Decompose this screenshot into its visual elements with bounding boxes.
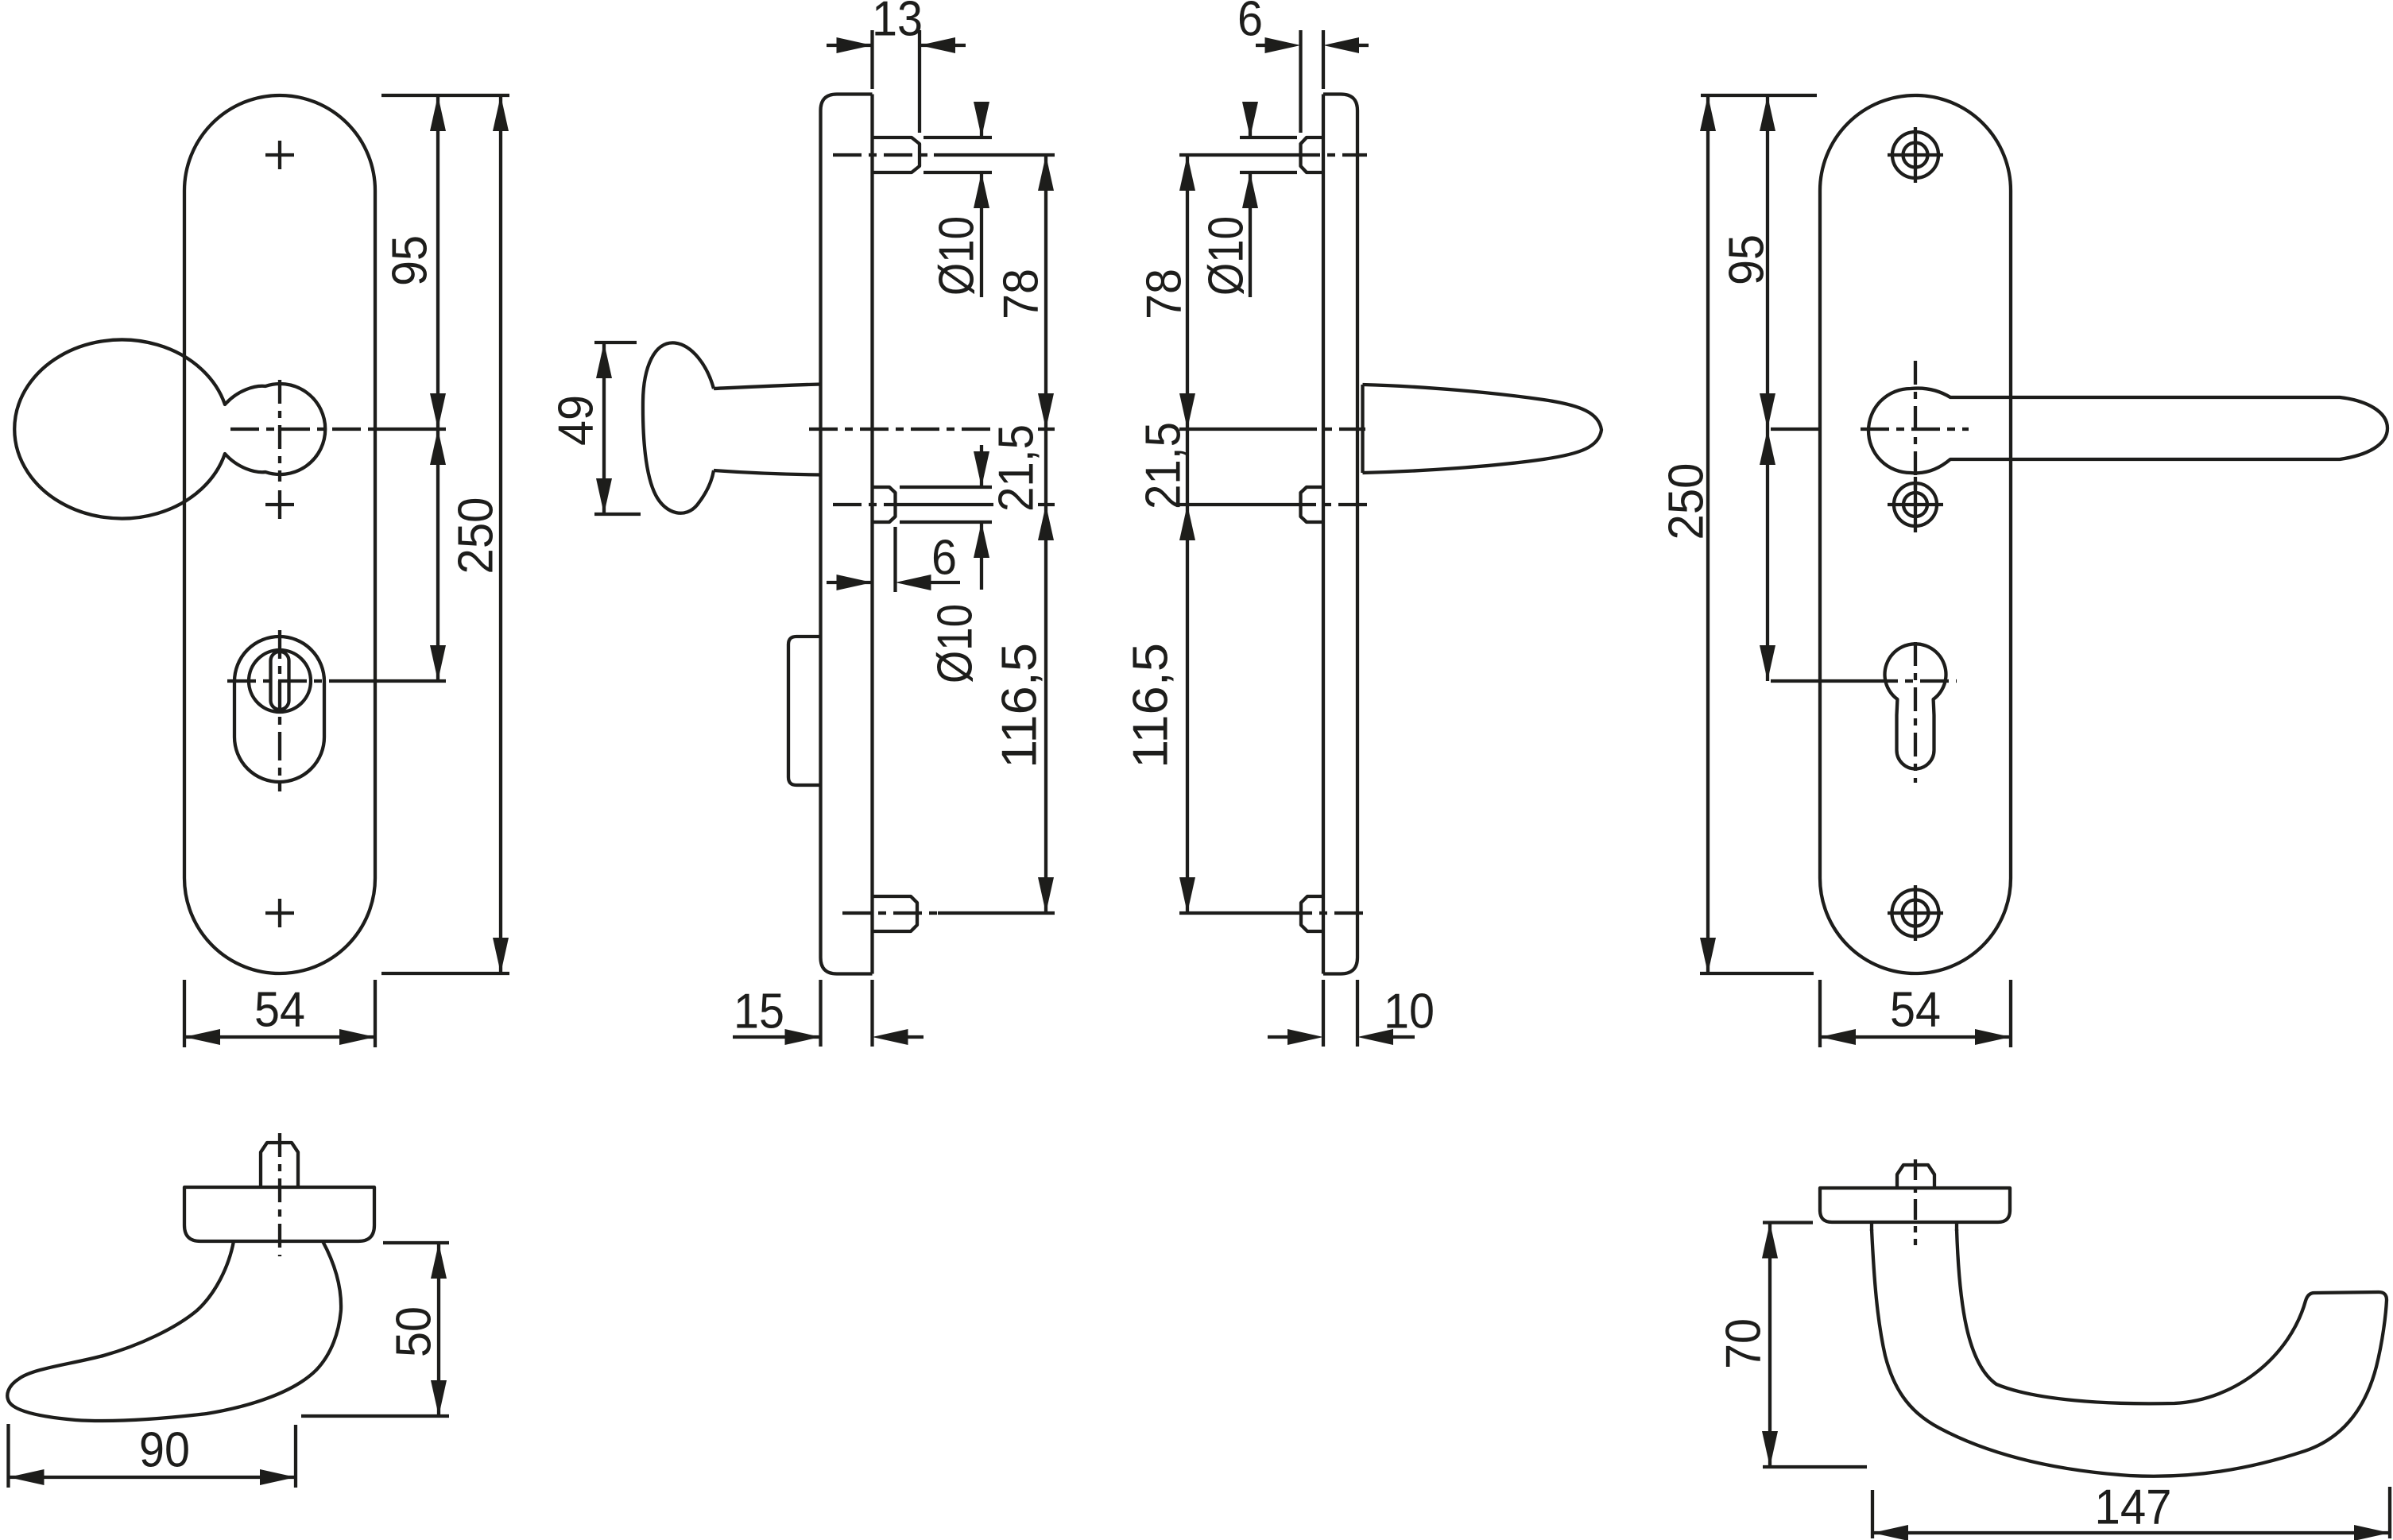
knob centre extension line bbox=[375, 428, 446, 431]
top fixing screw M6x13 (view2) bbox=[873, 137, 920, 172]
svg-text:54: 54 bbox=[254, 982, 305, 1037]
extension line 15 left (view2) bbox=[819, 980, 822, 1047]
dimension Ø10 middle screw (view2) bbox=[980, 445, 983, 487]
extension line 6 at screw tip (view3) bbox=[1299, 30, 1302, 133]
lever base edge (view3) bbox=[1361, 385, 1364, 473]
dimension line 90 (view5) bbox=[9, 1476, 296, 1479]
screw position mark middle (+) bbox=[265, 503, 294, 506]
dimension Ø10 top screw (view3) bbox=[1249, 102, 1252, 137]
cylinder housing hump (view2) bbox=[788, 637, 821, 785]
dimension line 54 (view4) bbox=[1820, 1035, 2011, 1039]
extension line plate top (view4) bbox=[1701, 94, 1817, 97]
extension line 70 top (view6) bbox=[1763, 1221, 1813, 1224]
extension line 10 left (view3) bbox=[1322, 980, 1325, 1047]
svg-text:70: 70 bbox=[1716, 1318, 1771, 1369]
extension line plate bottom (view1) bbox=[381, 972, 509, 975]
screw head top (view4) bbox=[1892, 132, 1938, 178]
svg-text:49: 49 bbox=[548, 395, 603, 446]
extension lines Ø10 top screw (view3) bbox=[1240, 136, 1297, 139]
screw position mark top (+) bbox=[265, 153, 294, 157]
lever centre line (view3) bbox=[1288, 428, 1365, 431]
svg-text:10: 10 bbox=[1384, 984, 1435, 1039]
dimension line 78 (view3) bbox=[1186, 155, 1189, 429]
knob (front view egg shape with neck) bbox=[14, 340, 325, 519]
svg-text:21,5: 21,5 bbox=[989, 424, 1044, 512]
cylinder hole oval (security rosette opening) bbox=[234, 637, 324, 782]
extension line plate top (view1) bbox=[381, 94, 509, 97]
lever centre extension line (view3) bbox=[1196, 428, 1288, 431]
svg-text:21,5: 21,5 bbox=[1136, 422, 1191, 509]
plate door face line (view3) bbox=[1322, 95, 1325, 974]
extension line 15 right (view2) bbox=[870, 980, 873, 1047]
plate door face line (view2) bbox=[870, 95, 873, 974]
knob grip profile (view5) bbox=[7, 1241, 341, 1421]
knob side view neck bottom line bbox=[714, 470, 821, 475]
dimension line lever-to-cylinder (view4) bbox=[1766, 429, 1769, 681]
lever grip profile (view6) bbox=[1872, 1229, 2387, 1476]
extension line 147 left (view6) bbox=[1871, 1490, 1874, 1538]
middle screw centre line (view3) bbox=[1196, 503, 1287, 506]
dimension line 147 (view6) bbox=[1872, 1531, 2390, 1534]
chain tick at top screw (view3) bbox=[1179, 153, 1196, 157]
dimension line 21,5 (view2) bbox=[1044, 429, 1047, 505]
extension line 54 left (view4) bbox=[1818, 980, 1822, 1047]
dimension line 13 (view2) bbox=[827, 44, 873, 47]
extension line 90 left (view5) bbox=[6, 1424, 10, 1488]
chain tick at lever centre (view3) bbox=[1179, 428, 1196, 431]
middle fixing screw M6x6 (view2) bbox=[873, 487, 896, 522]
euro profile cylinder hole (view4) bbox=[1885, 644, 1946, 768]
dimension line 250 (view4) bbox=[1706, 95, 1710, 973]
svg-text:15: 15 bbox=[734, 984, 784, 1039]
dimension line 54 (view1) bbox=[184, 1035, 375, 1039]
lever spindle centre line (view6) bbox=[1914, 1159, 1917, 1245]
svg-text:6: 6 bbox=[1237, 0, 1263, 46]
dimension line 21,5 (view3) bbox=[1186, 429, 1189, 505]
lever horizontal centre line (view4) bbox=[1861, 428, 1969, 431]
cylinder horizontal centre line bbox=[227, 679, 342, 683]
extension line 54 right (view1) bbox=[374, 980, 377, 1047]
svg-text:13: 13 bbox=[872, 0, 923, 46]
svg-text:50: 50 bbox=[386, 1306, 441, 1357]
bottom screw centre line (view3) bbox=[1196, 911, 1284, 915]
dimension line 6 (view3) bbox=[1256, 44, 1265, 47]
svg-text:95: 95 bbox=[382, 235, 437, 286]
knob vertical centre line bbox=[278, 380, 281, 482]
dimension line 116,5 (view3) bbox=[1186, 505, 1189, 913]
knob centre line (view2) bbox=[809, 428, 997, 431]
cylinder centre extension line bbox=[342, 679, 446, 683]
svg-text:95: 95 bbox=[1719, 234, 1774, 285]
lever rose flange (view6) bbox=[1820, 1188, 2010, 1222]
top fixing screw M6x6 (view3) bbox=[1301, 137, 1324, 172]
extension line 50 top (view5) bbox=[383, 1241, 449, 1244]
dimension line 6 (view2) bbox=[827, 581, 873, 584]
plate side profile (view2, 15 thick) bbox=[821, 95, 873, 974]
extension lines Ø10 top screw (view2) bbox=[924, 136, 992, 139]
inside backplate outline (front view, 54x250) bbox=[1820, 95, 2011, 973]
svg-text:147: 147 bbox=[2095, 1480, 2172, 1534]
svg-text:Ø10: Ø10 bbox=[927, 604, 982, 683]
lever handle front view (view4) bbox=[1868, 389, 2387, 474]
lever handle side view (view3) bbox=[1363, 385, 1602, 473]
svg-text:78: 78 bbox=[993, 269, 1048, 319]
chain tick at middle screw (view2) bbox=[1038, 503, 1055, 506]
plate side profile (view3, 10 thick) bbox=[1323, 95, 1357, 974]
svg-text:250: 250 bbox=[1659, 463, 1713, 540]
knob spindle (view5) bbox=[261, 1143, 298, 1187]
knob side view cap bbox=[643, 342, 714, 513]
extension line cylinder centre (view4) bbox=[1771, 679, 1869, 683]
top screw centre line (view3) bbox=[1196, 153, 1291, 157]
svg-text:116,5: 116,5 bbox=[1123, 643, 1178, 768]
chain tick at bottom screw (view3) bbox=[1179, 911, 1196, 915]
svg-text:116,5: 116,5 bbox=[992, 643, 1047, 768]
svg-text:250: 250 bbox=[448, 497, 503, 575]
dimension line 250 (view1) bbox=[499, 95, 502, 973]
extension line 6 at plate face (view3) bbox=[1322, 30, 1325, 89]
lever spindle (view6) bbox=[1897, 1165, 1934, 1188]
dimension line 49 (view2) bbox=[602, 342, 606, 514]
cylinder hole vertical centre line (view4) bbox=[1914, 642, 1917, 783]
extension line 70 bottom (view6) bbox=[1763, 1465, 1867, 1468]
middle fixing screw M6x6 (view3) bbox=[1301, 487, 1324, 522]
extension line 50 bottom (view5) bbox=[301, 1414, 449, 1418]
screw head bottom (view4) bbox=[1892, 890, 1939, 937]
lever collar right edge (view6) bbox=[1955, 1222, 1958, 1231]
dimension line 116,5 (view2) bbox=[1044, 505, 1047, 913]
lever collar left edge (view6) bbox=[1870, 1222, 1873, 1231]
chain tick at top screw (view2) bbox=[1038, 153, 1055, 157]
extension line 6 middle screw (view2) bbox=[893, 527, 896, 592]
dimension line 95 (view1) bbox=[436, 95, 439, 429]
extension line 54 right (view4) bbox=[2009, 980, 2012, 1047]
dimension line 15 (view2) bbox=[733, 1035, 821, 1039]
extension line lever centre (view4) bbox=[1771, 428, 1821, 431]
extension line 13 at plate face (view2) bbox=[870, 30, 873, 89]
extension line 13 at screw tip (view2) bbox=[918, 30, 921, 133]
svg-text:78: 78 bbox=[1136, 269, 1191, 319]
dimension line 70 (view6) bbox=[1768, 1223, 1772, 1468]
dimension line 78 (view2) bbox=[1044, 155, 1047, 429]
middle screw centre line (view2) bbox=[833, 503, 906, 506]
screw position mark bottom (+) bbox=[265, 911, 294, 915]
chain tick at knob centre (view2) bbox=[1038, 428, 1055, 431]
screw head middle (view4) bbox=[1894, 483, 1937, 526]
top screw centre line (view2) bbox=[833, 153, 934, 157]
bottom fixing screw M6x6 (view3) bbox=[1301, 896, 1323, 931]
extension line 49 bottom (knob cap) bbox=[594, 513, 641, 516]
extension line 147 right (view6) bbox=[2388, 1487, 2391, 1538]
cylinder hole horizontal centre line (view4) bbox=[1869, 679, 1957, 683]
outside backplate outline (front view, 54x250) bbox=[184, 95, 375, 973]
extension lines Ø10 middle screw (view2) bbox=[900, 486, 992, 489]
extension line 49 top (knob cap) bbox=[594, 341, 637, 344]
dimension line knob-to-cylinder (view1) bbox=[436, 429, 439, 681]
lever vertical centre line (view4) bbox=[1914, 361, 1917, 493]
svg-text:54: 54 bbox=[1890, 982, 1941, 1037]
cylinder body circle bbox=[249, 650, 311, 712]
chain tick at middle screw (view3) bbox=[1179, 503, 1196, 506]
dimension Ø10 top screw (view2) bbox=[980, 102, 983, 137]
bottom screw centre line (view2) bbox=[842, 911, 938, 915]
dimension line 10 (view3) bbox=[1268, 1035, 1288, 1039]
extension line 10 right (view3) bbox=[1356, 980, 1359, 1047]
knob spindle centre line (view5) bbox=[278, 1133, 281, 1256]
dimension line 50 (view5) bbox=[437, 1243, 440, 1416]
svg-text:90: 90 bbox=[139, 1422, 190, 1477]
knob rose flange (view5) bbox=[184, 1187, 374, 1241]
svg-text:Ø10: Ø10 bbox=[1198, 216, 1253, 296]
knob side view neck top line bbox=[714, 385, 821, 389]
extension line 54 left (view1) bbox=[183, 980, 186, 1047]
svg-text:Ø10: Ø10 bbox=[929, 216, 984, 296]
dimension line 95 (view4) bbox=[1766, 95, 1769, 429]
cylinder key slot bbox=[271, 652, 289, 710]
extension line 90 right (view5) bbox=[294, 1425, 297, 1488]
extension line plate bottom (view4) bbox=[1700, 972, 1814, 975]
chain tick at bottom screw (view2) bbox=[1038, 911, 1055, 915]
cylinder vertical centre line bbox=[278, 630, 281, 791]
bottom fixing screw M6x13 (view2) bbox=[873, 896, 918, 931]
svg-text:6: 6 bbox=[931, 530, 957, 585]
knob horizontal centre line bbox=[230, 428, 375, 431]
